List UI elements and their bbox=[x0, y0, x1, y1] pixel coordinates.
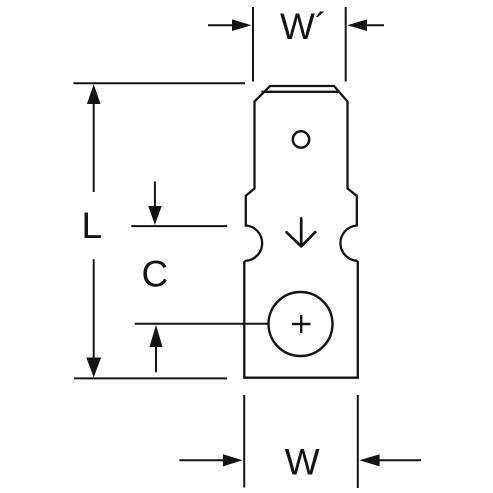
svg-text:W: W bbox=[285, 442, 320, 483]
svg-text:L: L bbox=[82, 205, 103, 246]
svg-text:W´: W´ bbox=[280, 6, 327, 47]
svg-text:C: C bbox=[142, 253, 169, 294]
